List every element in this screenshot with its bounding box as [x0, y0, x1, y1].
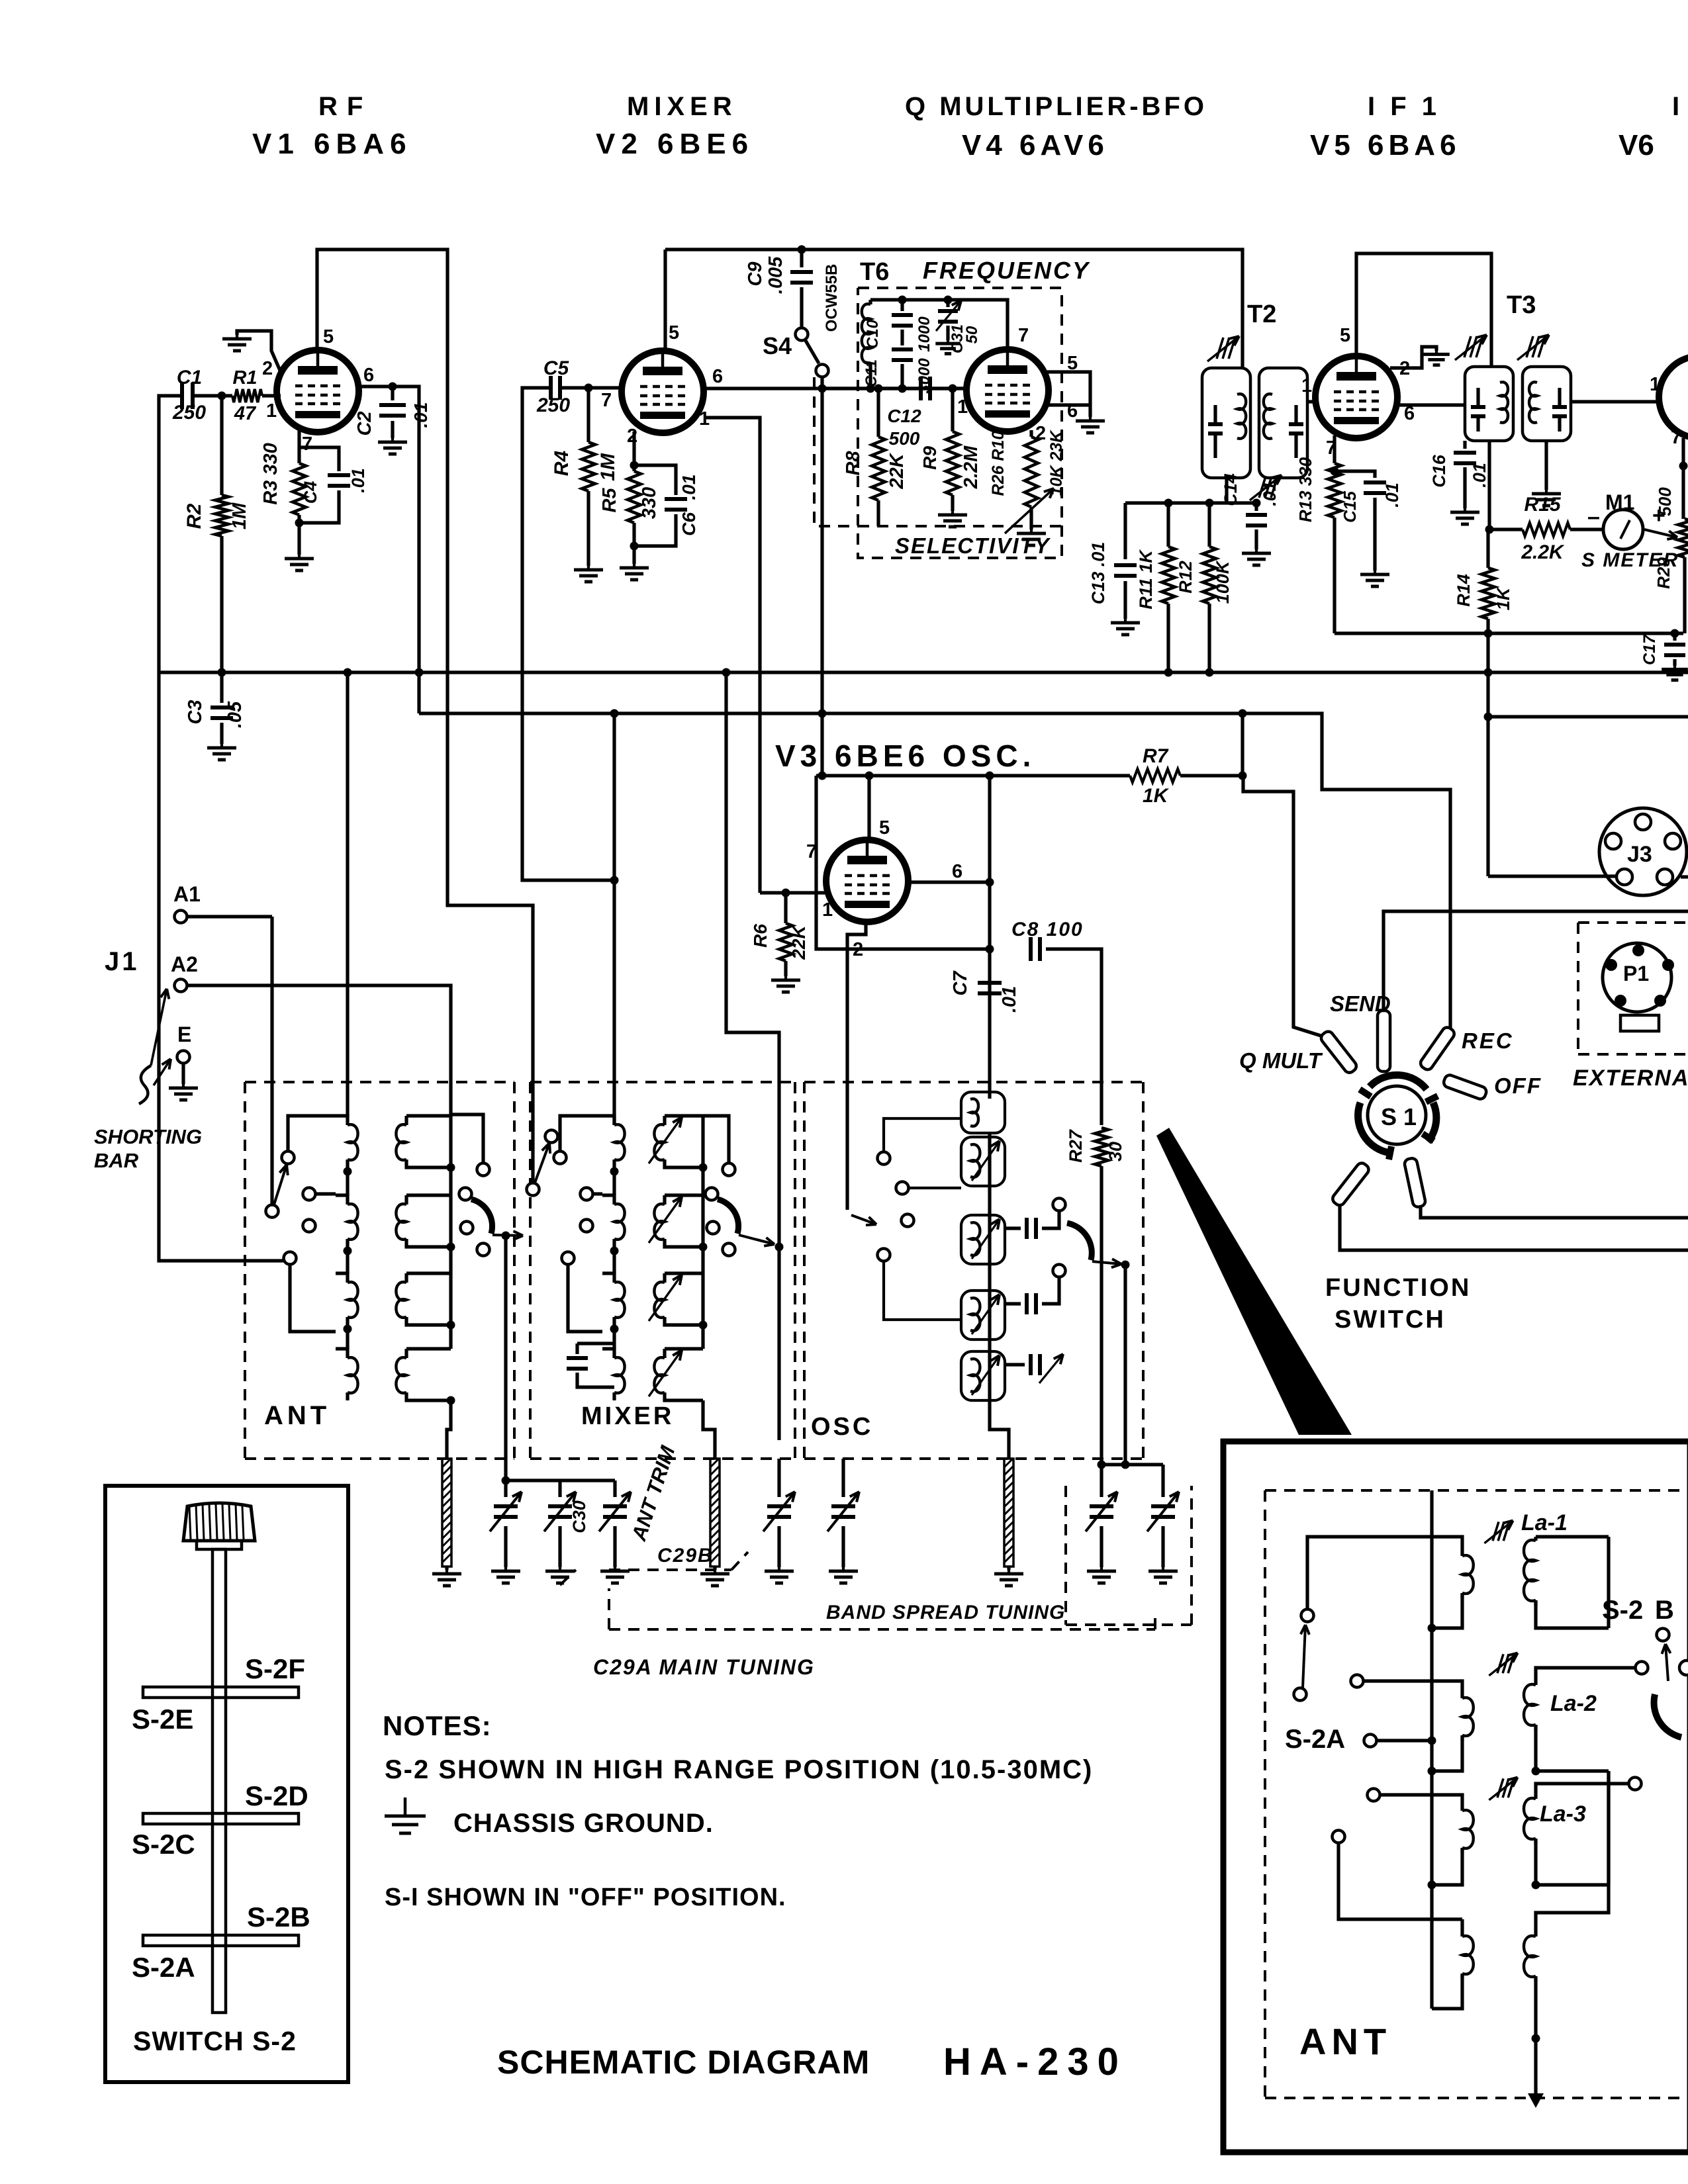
inset row 3 La-3	[1380, 1795, 1462, 1807]
svg-text:C12: C12	[887, 406, 921, 426]
capacitor C1	[180, 383, 184, 409]
svg-text:E: E	[177, 1023, 191, 1046]
wire V3 pin1 rail to R6	[760, 891, 829, 894]
coil band switch	[602, 1116, 614, 1125]
svg-text:22K: 22K	[886, 452, 908, 489]
svg-text:S 1: S 1	[1381, 1103, 1417, 1130]
shorting bar squiggle	[139, 1066, 151, 1104]
ground below C14	[1255, 549, 1258, 553]
svg-text:S-2B: S-2B	[247, 1901, 310, 1933]
B+ line right edge	[1488, 715, 1688, 718]
band spread capacitor 1	[1100, 1465, 1103, 1497]
coil band switch	[602, 1349, 614, 1358]
OSC rotor arc	[1067, 1223, 1092, 1260]
svg-text:HA-230: HA-230	[943, 2040, 1127, 2083]
svg-text:R1: R1	[232, 367, 257, 388]
svg-text:SCHEMATIC DIAGRAM: SCHEMATIC DIAGRAM	[497, 2044, 870, 2081]
wire V2 plate pin5 up to B+ bus	[663, 250, 667, 351]
svg-text:I F 1: I F 1	[1368, 92, 1440, 121]
trimmer arrow on OSC coil	[972, 1141, 1000, 1181]
coil inset left winding	[1460, 1933, 1464, 1936]
MIXER left contact terminals	[554, 1152, 567, 1164]
ground below T3 secondary	[1544, 441, 1548, 490]
svg-text:R9: R9	[919, 446, 940, 470]
svg-text:1: 1	[1301, 375, 1312, 396]
coil band switch	[336, 1273, 348, 1283]
svg-text:R26 R10: R26 R10	[989, 431, 1008, 496]
coil band switch	[665, 1193, 703, 1197]
svg-text:6: 6	[952, 861, 962, 882]
resistor R5 330	[628, 471, 641, 523]
wire V1 pin6 screen to AVC bus	[359, 387, 419, 713]
svg-text:S-2F: S-2F	[245, 1653, 305, 1684]
wire C5 to V2 grid	[561, 386, 620, 389]
capacitor C11 3000	[892, 347, 913, 351]
resistor R11 1K	[1166, 503, 1170, 547]
svg-text:CHASSIS GROUND.: CHASSIS GROUND.	[453, 1809, 714, 1838]
svg-text:C30: C30	[569, 1500, 589, 1533]
tube V5 6BA6	[1315, 356, 1397, 438]
wire mixer column from AGC bus	[612, 713, 616, 1125]
wire ANT col1 top from AVC bus	[346, 672, 349, 1116]
coil band switch	[336, 1116, 348, 1125]
resistor R1 47	[232, 389, 262, 402]
svg-text:V2 6BE6: V2 6BE6	[596, 128, 754, 160]
switch S4 contact upper	[796, 328, 808, 341]
svg-text:V6: V6	[1618, 129, 1654, 161]
svg-text:V5 6BA6: V5 6BA6	[1310, 129, 1461, 161]
svg-text:B: B	[1655, 1596, 1674, 1625]
wire lower-left blade out	[1340, 1205, 1688, 1250]
svg-text:SEND: SEND	[1330, 991, 1391, 1016]
MIXER wiper arm	[535, 1143, 549, 1183]
ANT section dashed box	[245, 1081, 514, 1083]
coil inset left winding	[1460, 1552, 1464, 1556]
switch S4 contact lower	[816, 365, 829, 377]
svg-text:C11: C11	[863, 359, 880, 387]
capacitor C3 .05	[220, 672, 223, 703]
node R4 top	[585, 384, 593, 392]
node grid V1 junction	[218, 392, 226, 400]
ground below R10	[1030, 529, 1033, 533]
coil band switch	[406, 1114, 451, 1117]
svg-text:2: 2	[1035, 423, 1046, 444]
OSC top coupling coil	[961, 1092, 1005, 1133]
svg-text:C16: C16	[1429, 454, 1449, 488]
trimmer capacitor ANT	[504, 1480, 507, 1497]
svg-text:1000: 1000	[915, 316, 933, 352]
svg-text:C15: C15	[1340, 491, 1360, 523]
svg-text:NOTES:: NOTES:	[383, 1710, 492, 1741]
svg-text:S4: S4	[763, 332, 792, 359]
wire MIXER wiper feed from V1 plate	[531, 1162, 534, 1183]
inset row 1 La-1	[1307, 1537, 1462, 1608]
series capacitor OSC row3	[1005, 1302, 1021, 1305]
svg-text:SWITCH S-2: SWITCH S-2	[133, 2026, 297, 2056]
coil L-T6	[868, 300, 872, 304]
connector P1	[1603, 943, 1671, 1012]
resistor R13 330	[1328, 463, 1341, 518]
P1 key tab	[1620, 1015, 1659, 1031]
wire meter to R29 wiper arrow	[1644, 529, 1677, 537]
inset row 2 La-2	[1364, 1681, 1462, 1694]
wire V5 pin6 to T3 primary	[1395, 403, 1465, 406]
chassis ground symbol in notes	[404, 1797, 407, 1816]
ground below R3	[297, 515, 301, 555]
coil band switch	[602, 1273, 614, 1283]
wire T2 secondary to V5 grid	[1307, 400, 1315, 403]
capacitor C17 .01 at page edge	[1673, 633, 1676, 641]
switch S-2 knob neck	[197, 1541, 242, 1549]
wire T3 secondary to V6	[1571, 400, 1660, 403]
tuning shaft below ANT	[442, 1459, 451, 1567]
svg-text:C9: C9	[745, 261, 766, 286]
svg-text:1: 1	[957, 396, 968, 418]
rotary switch S1 rotor	[1368, 1086, 1426, 1144]
wire V3 pin6 right	[910, 880, 990, 884]
svg-text:C29A MAIN TUNING: C29A MAIN TUNING	[593, 1655, 815, 1679]
svg-text:FUNCTION: FUNCTION	[1325, 1274, 1471, 1302]
svg-text:330: 330	[639, 487, 660, 519]
svg-text:.01: .01	[348, 468, 368, 493]
svg-text:.01: .01	[410, 402, 431, 428]
wire V1 cathode pin7	[297, 430, 301, 447]
wire SEND to external line	[1383, 911, 1688, 1011]
wire V2 pin6 to C12 line	[704, 387, 966, 390]
wire V3 pin5 up	[867, 776, 870, 839]
svg-text:250: 250	[536, 394, 570, 416]
coil OSC slug tuned	[961, 1291, 1005, 1340]
svg-text:C5: C5	[543, 357, 570, 379]
inset S-2B rotor	[1657, 1629, 1669, 1641]
svg-text:R27: R27	[1066, 1128, 1086, 1163]
switch S1 OFF blade	[1442, 1073, 1488, 1100]
svg-text:47: 47	[234, 403, 257, 424]
svg-text:500: 500	[889, 428, 920, 449]
ANT rotor output arrow	[492, 1235, 523, 1236]
T6 top rail	[870, 300, 1008, 349]
svg-text:5: 5	[323, 326, 334, 347]
switch S-2 wafer F/E	[143, 1687, 299, 1698]
svg-text:1M: 1M	[229, 502, 250, 529]
svg-text:R15: R15	[1524, 494, 1561, 516]
trimmer capacitor C30	[558, 1480, 561, 1497]
svg-text:1K: 1K	[1493, 586, 1513, 610]
svg-text:V1 6BA6: V1 6BA6	[252, 128, 412, 160]
wire mixer tracking feed	[726, 672, 779, 1440]
svg-text:P1: P1	[1623, 962, 1649, 985]
terminal inset lower-left	[1333, 1831, 1345, 1843]
wires V4 pins 5,6 to ground	[1047, 372, 1090, 417]
ground below C17	[1673, 666, 1676, 669]
terminal E	[177, 1051, 190, 1064]
selectivity inner dashed line	[858, 525, 1062, 527]
coil band switch	[602, 1195, 614, 1205]
svg-text:2.2M: 2.2M	[961, 445, 982, 489]
series capacitor OSC row4	[1005, 1363, 1025, 1366]
MIXER rotor output arrow	[739, 1235, 774, 1244]
wire R1 to V1 grid	[262, 394, 281, 397]
coil band switch	[406, 1193, 451, 1197]
node R12 on AVC bus	[1205, 668, 1214, 677]
svg-text:1: 1	[266, 400, 277, 422]
trimmer arrow on coil	[649, 1197, 682, 1243]
svg-text:5: 5	[879, 817, 890, 839]
wire OSC col bottom to shaft	[990, 1400, 1009, 1459]
svg-text:30: 30	[1105, 1142, 1125, 1161]
svg-text:S-2A: S-2A	[132, 1952, 195, 1983]
ground below R6	[784, 976, 787, 980]
grid line through T6	[825, 387, 966, 390]
resistor R8 22K	[876, 388, 880, 437]
svg-text:.01: .01	[1260, 481, 1280, 506]
svg-text:1: 1	[822, 899, 833, 921]
svg-text:.01: .01	[1382, 482, 1402, 508]
trimmer mark above T3 secondary	[1526, 336, 1533, 357]
svg-text:R2: R2	[183, 504, 205, 529]
capacitor C13 .01	[1123, 503, 1127, 559]
trimmer mark above T3 primary	[1464, 336, 1471, 357]
capacitor C8 100	[1029, 937, 1033, 961]
svg-text:250: 250	[172, 402, 206, 424]
wire S4 to mixer grid line	[820, 377, 823, 388]
svg-text:C7: C7	[950, 970, 971, 996]
dashed link S4 to selectivity network	[814, 377, 858, 526]
node cathode bottom	[295, 519, 304, 527]
wire inset right vertical	[1607, 1537, 1610, 1628]
resistor R12 100K	[1207, 503, 1211, 547]
switch S-2 outline box	[105, 1486, 348, 2082]
svg-text:C2: C2	[354, 411, 375, 435]
coil inset left winding	[1460, 1807, 1464, 1811]
svg-text:J3: J3	[1627, 842, 1652, 867]
MIXER section dashed box	[530, 1081, 795, 1083]
tube V1 6BA6	[277, 350, 359, 432]
svg-text:1K: 1K	[1143, 785, 1170, 807]
ANT TRIM rail	[506, 1479, 615, 1482]
coil OSC slug tuned	[961, 1137, 1005, 1186]
svg-text:Q MULTIPLIER-BFO: Q MULTIPLIER-BFO	[905, 92, 1207, 121]
svg-text:5: 5	[669, 322, 679, 343]
wire V5 cathode pin7 to R13	[1333, 435, 1336, 463]
svg-text:6: 6	[363, 365, 374, 386]
svg-text:R29: R29	[1654, 557, 1673, 589]
capacitor C15 .01	[1335, 471, 1375, 478]
svg-text:A2: A2	[171, 952, 198, 976]
wire inset bottom to ground arrow	[1534, 2009, 1537, 2098]
tube V2 6BE6	[622, 351, 704, 433]
series capacitor OSC row2	[1005, 1226, 1021, 1230]
svg-text:C4: C4	[301, 481, 320, 504]
switch S4 arm	[805, 340, 819, 363]
svg-text:La-3: La-3	[1540, 1801, 1586, 1827]
capacitor padder in MIXER	[575, 1343, 579, 1354]
wire A1 to ANT switch	[187, 915, 272, 918]
trimmer mark La-2	[1497, 1654, 1503, 1673]
svg-text:5: 5	[1340, 325, 1350, 346]
OSC wiper arm	[851, 1215, 876, 1224]
capacitor C2 .01 screen bypass	[391, 387, 394, 400]
resistor R14 1K	[1486, 529, 1489, 568]
capacitor C16 .01 below T3 primary	[1463, 441, 1466, 449]
svg-text:C1: C1	[177, 367, 202, 388]
wire MIXER col2 bottom to shaft	[703, 1400, 715, 1459]
wire T2 primary bottom to AVC components	[1225, 478, 1228, 503]
svg-text:R8: R8	[843, 451, 864, 476]
pointer wedge to inset	[1156, 1128, 1352, 1435]
tuning shaft below MIXER	[710, 1459, 720, 1567]
node R5 bottom	[630, 542, 639, 551]
switch S-2 shaft	[212, 1549, 226, 2013]
wire oscillator injection down to OSC box	[820, 388, 823, 776]
dashed link C29A main tuning	[609, 1628, 1155, 1631]
resistor R2 1M	[220, 396, 223, 495]
svg-text:22K: 22K	[788, 925, 809, 960]
svg-text:V3 6BE6 OSC.: V3 6BE6 OSC.	[775, 739, 1035, 773]
wire C1 to R1	[193, 394, 232, 397]
trimmer mark La-3	[1497, 1778, 1503, 1797]
svg-text:C8 100: C8 100	[1011, 919, 1084, 940]
ground below E	[181, 1064, 185, 1084]
svg-text:R6: R6	[750, 924, 771, 948]
svg-text:J1: J1	[105, 947, 140, 976]
svg-text:2: 2	[627, 426, 637, 447]
coil OSC slug tuned	[961, 1351, 1005, 1400]
capacitor C5	[549, 376, 553, 400]
svg-text:7: 7	[1671, 427, 1681, 448]
svg-text:FREQUENCY: FREQUENCY	[923, 257, 1090, 284]
coil band switch	[665, 1347, 703, 1350]
svg-text:T3: T3	[1507, 291, 1536, 319]
node rotor to mixer line	[775, 1243, 784, 1251]
wire A1 wiper feed	[270, 917, 273, 1205]
capacitor C4 .01 cathode bypass	[299, 447, 339, 471]
ANT right contact terminals	[477, 1163, 490, 1176]
switch S1 REC blade	[1419, 1025, 1456, 1071]
svg-text:10K 23K: 10K 23K	[1047, 430, 1066, 496]
svg-text:S-2 SHOWN IN HIGH RANGE P: S-2 SHOWN IN HIGH RANGE POSITION (10.5-3…	[385, 1755, 1093, 1784]
wire B+ bus V2 to T2	[665, 250, 1243, 368]
svg-text:C13 .01: C13 .01	[1088, 542, 1108, 605]
ground below R9	[951, 511, 954, 515]
AVC bus	[159, 670, 1688, 674]
node C9 tap	[798, 246, 806, 254]
wire lower-right blade out	[1421, 1206, 1688, 1218]
wire ANT trimmer feed	[502, 1232, 510, 1240]
variable resistor R29 500	[1681, 438, 1685, 519]
svg-text:RF: RF	[318, 92, 372, 121]
wire A2 to ANT coil	[187, 985, 451, 1116]
MIXER rotor arc	[718, 1199, 739, 1234]
svg-text:C10: C10	[864, 319, 882, 349]
switch S-2 wafer D/C	[143, 1813, 299, 1824]
capacitor inside T2 secondary	[1289, 422, 1303, 426]
svg-text:S-2E: S-2E	[132, 1704, 193, 1735]
coil band switch	[406, 1347, 451, 1350]
transformer T2 secondary winding	[1259, 368, 1307, 478]
trimmer arrow on coil	[649, 1117, 682, 1163]
svg-text:50: 50	[963, 326, 981, 343]
wire C1 left leg down to AVC bus	[159, 396, 283, 1261]
resistor R15 2.2K	[1523, 523, 1570, 536]
svg-text:MIXER: MIXER	[581, 1402, 674, 1430]
MIXER right contact terminals	[723, 1163, 735, 1176]
trimmer arrow on OSC coil	[972, 1355, 1000, 1395]
svg-text:7: 7	[806, 841, 817, 862]
shield ground top-left of V1	[237, 331, 281, 372]
coil band switch	[665, 1271, 703, 1275]
ground below C16	[1464, 508, 1466, 512]
capacitor C7 .01	[978, 981, 1002, 985]
svg-text:EXTERNAL: EXTERNAL	[1573, 1066, 1688, 1091]
terminal A1	[175, 911, 187, 923]
svg-text:La-2: La-2	[1550, 1691, 1597, 1716]
svg-text:2.2K: 2.2K	[1521, 541, 1565, 563]
capacitor C14 .01	[1252, 499, 1261, 508]
coil inset right winding	[1534, 1681, 1537, 1685]
trimmer capacitor ANT TRIM	[613, 1480, 616, 1497]
oscillator loop box	[816, 776, 990, 949]
trimmer arrow on OSC coil	[972, 1219, 1000, 1259]
wire V2 pin1 down to V3 grid R6 rail	[704, 418, 760, 893]
trimmer mark La-1	[1493, 1522, 1499, 1541]
capacitor C9 .005	[800, 250, 803, 267]
wire R15 to meter	[1570, 527, 1603, 531]
trimmer arrow on OSC coil	[972, 1295, 1000, 1334]
svg-text:V4 6AV6: V4 6AV6	[962, 129, 1109, 161]
wire OSC rotor to band spread	[1123, 1265, 1127, 1465]
wire V3 pin2 down to OSC wiper	[847, 921, 866, 1210]
svg-text:R3 330: R3 330	[260, 443, 281, 505]
svg-text:S-2A: S-2A	[1285, 1725, 1345, 1754]
svg-text:7: 7	[601, 390, 612, 411]
ground below C3	[220, 744, 223, 748]
svg-text:R11 1K: R11 1K	[1136, 549, 1156, 610]
svg-text:–: –	[1587, 504, 1600, 529]
trimmer mark below T2 secondary	[1259, 477, 1266, 498]
terminal A2	[175, 979, 187, 992]
coil band switch	[336, 1195, 348, 1205]
svg-text:ANT: ANT	[264, 1401, 330, 1430]
svg-text:R4: R4	[551, 451, 573, 477]
svg-text:OFF: OFF	[1494, 1073, 1542, 1098]
svg-text:BAND SPREAD TUNING: BAND SPREAD TUNING	[826, 1602, 1065, 1623]
wire J3 feed from AVC bus	[1488, 874, 1617, 878]
trimmer mark above T2 primary	[1217, 338, 1223, 359]
svg-text:MIXER: MIXER	[627, 92, 737, 121]
coil inset right winding	[1534, 1933, 1537, 1936]
dashed link C29B	[560, 1570, 576, 1585]
coil inset left winding	[1460, 1694, 1464, 1698]
coil band switch	[406, 1271, 451, 1275]
capacitor inside T3 primary	[1471, 405, 1485, 409]
svg-text:1: 1	[1650, 374, 1660, 395]
svg-text:R7: R7	[1143, 745, 1169, 767]
capacitor inside T2 primary	[1208, 422, 1223, 426]
meter M1	[1603, 510, 1643, 549]
OSC left contact terminals	[878, 1152, 890, 1165]
trimmer arrow on coil	[649, 1350, 682, 1396]
svg-text:C6: C6	[679, 512, 699, 536]
ground below C15	[1374, 570, 1376, 574]
svg-text:C14: C14	[1221, 473, 1241, 506]
OSC rotor output arrow	[1092, 1261, 1121, 1264]
svg-text:R13 330: R13 330	[1295, 457, 1315, 522]
svg-text:Q MULT: Q MULT	[1239, 1048, 1323, 1073]
ANT left contact terminals	[282, 1152, 295, 1164]
dashed box band spread tuning	[1064, 1486, 1067, 1625]
coil band switch	[336, 1349, 348, 1358]
